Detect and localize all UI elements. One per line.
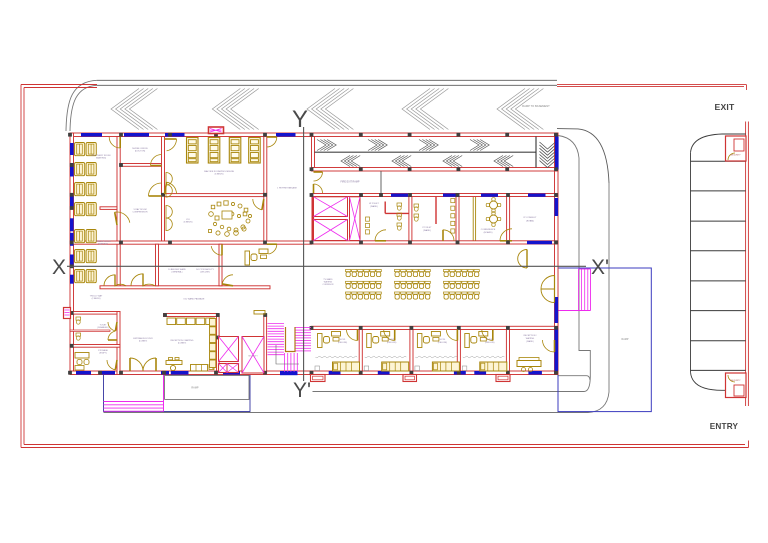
p toilet wc 1 [414, 204, 419, 211]
patient room 1 bed [333, 362, 360, 371]
exterior wall bottom [70, 371, 558, 375]
window patient rooms 5 [528, 371, 542, 375]
w toilet wc 3 [397, 223, 402, 230]
icu equipment cluster [209, 201, 252, 237]
patient room 2 marker [364, 366, 369, 371]
svg-text:S.P.W.: S.P.W. [439, 339, 445, 341]
wall post [456, 241, 460, 245]
window bottom wall 4 [171, 371, 189, 375]
boundary bottom outer [21, 447, 749, 449]
conference table 2 [486, 212, 501, 227]
lift 2 [314, 220, 348, 241]
foyer cabinet column [210, 319, 216, 368]
store desk set [75, 353, 89, 371]
hall seating row 1-1 [346, 270, 382, 277]
window top wall 4 [276, 133, 296, 137]
wall post [554, 241, 558, 245]
boundary top-right outer [557, 84, 747, 86]
drive inner edge vertical [579, 158, 590, 377]
entrance canopy box top [209, 127, 224, 134]
toilet door 1 [108, 322, 115, 331]
waiting chairs pair 6 [75, 250, 97, 263]
conference table 1 [486, 198, 501, 213]
fire corridor door lower [314, 184, 323, 193]
wall post [408, 167, 412, 171]
wall post [379, 193, 383, 197]
wall post [310, 371, 314, 375]
wall post [310, 193, 314, 197]
ward foyer door [543, 340, 555, 352]
hall seating row 2-2 [395, 281, 431, 288]
porch stair divider [163, 375, 165, 412]
svg-text:1 HR FIRE PASSAGE: 1 HR FIRE PASSAGE [277, 187, 297, 190]
doctor facility desk [245, 249, 268, 265]
ward double door 1 [104, 275, 126, 286]
lift shaft wall cap [312, 197, 315, 241]
wall post [408, 133, 412, 137]
wall post [98, 371, 102, 375]
dialysis door 2 [167, 182, 177, 194]
wall post [359, 326, 363, 330]
window bottom wall 5 [223, 371, 240, 375]
patient room wall 2 [410, 330, 413, 372]
window consult top 4 [528, 194, 546, 197]
parking stall divider 3 [691, 220, 746, 222]
consult strip bottom wall [312, 241, 559, 244]
svg-text:X': X' [591, 256, 609, 279]
patient room 1 door [347, 330, 358, 341]
dialysis chair 2 [208, 138, 220, 164]
conference partition b [475, 197, 477, 241]
side entry steps [559, 269, 591, 311]
wall post [70, 193, 74, 197]
road corner arc outer [66, 80, 97, 131]
svg-text:WAITING: WAITING [526, 337, 535, 340]
nurse office bottom wall [120, 164, 161, 167]
p toilet stall wall [435, 197, 437, 225]
wall post [119, 133, 123, 137]
w toilet wc 1 [397, 203, 402, 210]
svg-text:(DELUXE): (DELUXE) [438, 342, 448, 344]
window bottom wall 6 [280, 371, 298, 375]
patient room 3 bed [432, 362, 459, 371]
svg-text:RAMP: RAMP [622, 338, 629, 341]
road chevron 1 [111, 89, 157, 130]
window bottom wall 1 [76, 371, 91, 375]
patient room 1 desk [318, 332, 341, 348]
parking stall divider 2 [691, 190, 746, 192]
stair window [280, 372, 298, 375]
wall post [168, 241, 172, 245]
wall post [554, 193, 558, 197]
svg-text:S.P.W.: S.P.W. [389, 339, 395, 341]
wall post [310, 133, 314, 137]
svg-text:SECURITY: SECURITY [248, 356, 258, 358]
drive inner edge bottom [313, 391, 585, 393]
hall seating row 1-2 [346, 281, 382, 288]
parking top arc [691, 134, 723, 153]
svg-text:P.TOILET: P.TOILET [423, 227, 433, 229]
w toilet wc 2 [397, 213, 402, 220]
boundary right inner [745, 122, 747, 407]
boundary bottom right hook [748, 441, 750, 448]
patient room 1 marker [315, 366, 320, 371]
ramp end divider [535, 137, 537, 168]
w toilet stall wall [385, 212, 409, 214]
wall post [554, 133, 558, 137]
ward foyer bench [517, 358, 541, 372]
svg-text:SECURITY: SECURITY [730, 380, 741, 382]
wall post [408, 241, 412, 245]
wall post [456, 193, 460, 197]
toilet wall 1 [409, 197, 412, 241]
wall post [263, 371, 267, 375]
toilet wc 2 [76, 333, 81, 340]
wall post [70, 206, 74, 210]
p toilet wc 2 [414, 214, 419, 221]
wall post [163, 313, 167, 317]
louver door 4 [166, 218, 172, 231]
hall seating row 3-2 [444, 281, 480, 288]
parking stall divider 5 [691, 280, 746, 282]
wall post [70, 163, 74, 167]
ramp strip bottom wall [312, 168, 559, 172]
svg-text:Y': Y' [293, 379, 311, 402]
exterior wall right [555, 133, 559, 375]
patient room 4 door [482, 330, 493, 341]
icu passage door [269, 244, 277, 254]
wall post [70, 264, 74, 268]
wall post [263, 193, 267, 197]
road chevron 4 [402, 89, 448, 130]
exterior wall left [70, 133, 74, 375]
consult strip top wall [312, 194, 559, 197]
duct shaft 2 [242, 337, 264, 374]
patient room 2 desk [367, 332, 390, 348]
dialysis bottom wall [165, 194, 264, 197]
patient room 3 desk [417, 332, 440, 348]
w toilet door [375, 230, 386, 241]
parking stall divider 8 [691, 369, 746, 371]
svg-text:(BOARD): (BOARD) [484, 231, 493, 234]
hall seating row 3-3 [444, 292, 480, 299]
toilet wall 2 [456, 197, 459, 241]
boundary left outer [20, 85, 22, 448]
toilet wall 3 [507, 197, 510, 241]
louver door 3 [166, 206, 172, 219]
window left wall 1 [70, 143, 74, 155]
svg-text:Y: Y [292, 106, 308, 133]
ramp chevrons upper 3 [419, 140, 438, 151]
window consult top 3 [481, 194, 498, 197]
window patient right wall [555, 328, 559, 371]
parking stall divider 7 [691, 340, 746, 342]
ramp chevrons upper 2 [368, 140, 387, 151]
ramp strip middle line [315, 151, 537, 153]
section line X [67, 265, 586, 267]
road corner arc inner [70, 85, 97, 131]
wall post [70, 311, 74, 315]
svg-text:(DELUXE): (DELUXE) [485, 342, 495, 344]
stair block wall [264, 314, 267, 373]
drive outer arc bottom [588, 392, 609, 413]
window left wall 4 [70, 218, 74, 231]
patient room 1 curtain [316, 356, 358, 358]
window left wall 3 [70, 196, 74, 209]
boundary right outer [747, 122, 749, 407]
hall seating row 1-3 [346, 292, 382, 299]
w toilet sinks [366, 217, 370, 234]
window bottom wall 2 [99, 371, 115, 375]
waiting chairs pair 3 [75, 183, 97, 196]
ward strip bottom wall [100, 286, 270, 289]
p toilet door [443, 230, 454, 241]
hall seating row 3-1 [444, 270, 480, 277]
toilet sink column [451, 199, 455, 234]
waiting inner wall [100, 207, 117, 210]
drive outer edge bottom [104, 412, 589, 414]
svg-text:ICU WARD PASSAGE: ICU WARD PASSAGE [184, 298, 205, 301]
boundary top-left inner [24, 87, 97, 89]
parking bottom arc [691, 372, 723, 390]
patient room wall 1 [359, 330, 362, 372]
ward divider 1 [156, 244, 159, 286]
toilet block bottom wall [70, 345, 120, 348]
icu door [253, 199, 262, 210]
patient room 3 door [446, 330, 457, 341]
foyer bench [191, 365, 215, 372]
drive outer arc top [557, 129, 609, 183]
wall post [359, 133, 363, 137]
fire corridor divider [380, 171, 382, 194]
parking stall divider 4 [691, 250, 746, 252]
wall post [457, 167, 461, 171]
ramp chevrons lower 4 [494, 156, 513, 167]
svg-text:SECURITY: SECURITY [730, 155, 741, 157]
svg-text:(DELUXE): (DELUXE) [387, 342, 397, 344]
svg-text:S.P.W.: S.P.W. [340, 339, 346, 341]
road top outer edge [97, 79, 557, 81]
wall post [162, 371, 166, 375]
patient room 4 marker [462, 366, 467, 371]
window left wall 7 [70, 275, 74, 284]
waiting room wall [117, 137, 120, 287]
svg-text:S.P.W.: S.P.W. [487, 339, 493, 341]
ramp chevrons upper 4 [470, 140, 489, 151]
road chevron 3 [307, 89, 353, 130]
main staircase [268, 324, 312, 373]
window ramp end [555, 137, 559, 170]
entrance porch outline [104, 375, 251, 412]
wall post [161, 193, 165, 197]
waiting room door top [109, 137, 120, 148]
doctor facility door [222, 275, 233, 284]
w toilet stall wall 2 [384, 202, 386, 214]
wall post [506, 326, 510, 330]
duct shaft 1 [219, 337, 239, 362]
drive inner arc bottom [584, 377, 590, 392]
wall post [70, 344, 74, 348]
wall post [359, 193, 363, 197]
louver door 2 [166, 185, 172, 198]
window left wall 2 [70, 163, 74, 177]
stair top door [254, 311, 265, 315]
wall post [216, 313, 220, 317]
wall post [214, 371, 218, 375]
patient strip top wall [312, 326, 559, 329]
security cabin bottom [726, 373, 747, 398]
window patient rooms 2 [378, 371, 390, 375]
patient room 4 curtain [463, 356, 505, 358]
wall post [506, 371, 510, 375]
wall post [457, 371, 461, 375]
ramp chevrons upper 1 [317, 140, 336, 151]
toilet stall partition [70, 330, 110, 331]
svg-text:W.TOILET: W.TOILET [369, 203, 379, 205]
window consult bottom right [527, 241, 552, 244]
main entrance double door [130, 358, 156, 371]
patient room 2 bed [382, 362, 409, 371]
svg-text:(WARD): (WARD) [423, 229, 431, 232]
toilet door 2 [108, 331, 115, 340]
window left wall 6 [70, 255, 74, 268]
parking bottom line [722, 389, 746, 391]
window left wall 5 [70, 233, 74, 246]
wall post [457, 326, 461, 330]
nurse office door [151, 155, 162, 166]
svg-text:RAMP TO BASEMENT: RAMP TO BASEMENT [522, 104, 550, 108]
icu bottom wall [70, 241, 312, 244]
porch steps [104, 402, 164, 412]
store door [107, 360, 115, 370]
hall double door corridor [518, 250, 527, 269]
wall post [506, 241, 510, 245]
reception back wall [164, 314, 219, 317]
parking left edge [690, 153, 692, 372]
wall post [554, 371, 558, 375]
ramp end down chevrons [540, 142, 556, 168]
window consult right wall [555, 198, 559, 216]
waiting chairs pair 2 [75, 163, 97, 176]
wall post [310, 326, 314, 330]
svg-text:FIRE EXIT RAMP: FIRE EXIT RAMP [341, 181, 360, 184]
reception desk [166, 358, 182, 371]
road chevron 5 [497, 89, 543, 130]
svg-text:RECEPTION /: RECEPTION / [524, 335, 537, 337]
ward double door 2 [131, 274, 155, 286]
wall post [359, 371, 363, 375]
louver door 1 [166, 173, 172, 186]
wall post [410, 326, 414, 330]
security cabin top [726, 136, 747, 161]
svg-text:CONFERENCE: CONFERENCE [481, 229, 496, 231]
window top wall 2 [124, 133, 149, 137]
waiting room door mid [115, 212, 130, 223]
wall post [310, 167, 314, 171]
svg-text:ENTRY: ENTRY [710, 422, 739, 431]
ramp chevrons lower 1 [341, 156, 360, 167]
dialysis icu wall [264, 137, 267, 245]
wall post [119, 241, 123, 245]
wall post [408, 193, 412, 197]
waiting chairs pair 5 [75, 230, 97, 243]
patient room 4 desk [465, 332, 488, 348]
hall seating row 2-3 [395, 292, 431, 299]
road chevron 2 [212, 89, 258, 130]
patient room 3 marker [415, 366, 420, 371]
wall post [168, 133, 172, 137]
road top inner edge [97, 84, 557, 86]
window patient rooms 4 [474, 371, 486, 375]
dialysis door 1 [167, 139, 177, 151]
svg-text:X: X [52, 256, 66, 279]
reception cabinets [167, 318, 214, 325]
boundary top right hook [746, 85, 748, 90]
ward divider 2 [219, 244, 222, 286]
wall post [119, 163, 123, 167]
drive outer edge vertical [608, 183, 610, 392]
staircase shaft [350, 197, 361, 241]
wall post [554, 326, 558, 330]
emergency exit box left [64, 308, 71, 319]
section line Y vertical [303, 127, 305, 381]
svg-text:(EXAM): (EXAM) [526, 220, 534, 223]
svg-text:IP CONSULT: IP CONSULT [524, 217, 538, 219]
drive spur from building [558, 376, 590, 380]
patient room 3 curtain [415, 356, 457, 358]
ramp box [165, 375, 249, 399]
ward door 3 [211, 246, 222, 255]
wall post [119, 371, 123, 375]
conference partition a [472, 197, 474, 241]
wall post [506, 193, 510, 197]
pillar box 2 [403, 375, 417, 382]
wall post [263, 313, 267, 317]
wall post [505, 133, 509, 137]
dialysis chair 4 [249, 138, 261, 164]
dialysis chair 3 [229, 138, 241, 164]
wall post [457, 133, 461, 137]
ramp strip left end wall [312, 137, 315, 168]
reception side wall [217, 317, 220, 372]
ramp chevrons lower 2 [392, 156, 411, 167]
toilet block right wall [117, 312, 120, 375]
parking stall divider 6 [691, 310, 746, 312]
hall double door right [541, 276, 555, 303]
boundary bottom inner [24, 444, 745, 446]
waiting chairs pair 4 [75, 203, 97, 216]
boundary left inner [23, 88, 25, 445]
svg-text:EXIT: EXIT [715, 102, 735, 112]
boundary top-right inner [557, 86, 744, 88]
waiting chairs pair 1 [75, 143, 97, 156]
wall post [359, 241, 363, 245]
duct shaft small [219, 364, 239, 373]
patient room 4 bed [480, 362, 507, 371]
svg-text:(WARD): (WARD) [370, 205, 378, 208]
wall post [216, 336, 220, 340]
window patient rooms 1 [329, 371, 341, 375]
wall post [410, 371, 414, 375]
hall seating row 2-1 [395, 270, 431, 277]
wall post [505, 167, 509, 171]
pillar box 1 [311, 375, 326, 382]
xray door [149, 183, 162, 196]
waiting chairs pair 7 [75, 270, 97, 283]
patient room 2 door [384, 330, 395, 341]
ip consult door [500, 229, 512, 241]
window consult top 2 [443, 194, 460, 197]
